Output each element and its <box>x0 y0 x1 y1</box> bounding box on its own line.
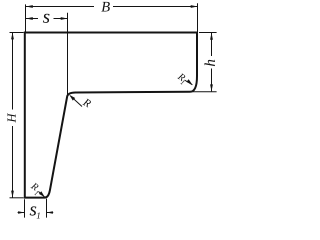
arrow s1 left (outside, points right) <box>18 211 24 214</box>
arrow h top <box>210 33 213 40</box>
label h <box>204 60 214 66</box>
leader R (inner fillet) <box>71 96 83 107</box>
arrow B right <box>191 5 198 8</box>
leader R1 (bottom fillet) <box>39 192 45 198</box>
extension line B right <box>197 3 199 32</box>
extension line H bottom (left of bottom edge) <box>10 197 24 199</box>
leader R1 (top right fillet) <box>185 80 193 85</box>
arrow s1 right (outside, points left) <box>47 211 53 214</box>
arrow h bottom <box>210 84 213 91</box>
label R1 (top right): R <box>177 73 186 82</box>
dimension line H <box>12 32 14 109</box>
label B <box>101 2 109 12</box>
label R1 (bottom): R <box>30 182 39 191</box>
extension line s1 left <box>24 199 26 217</box>
extension line H top (left of top edge) <box>10 32 24 34</box>
label s1: subscript 1 <box>37 213 40 219</box>
dimension line s1 left tail <box>18 212 25 214</box>
label R <box>82 98 91 108</box>
extension line B left <box>25 4 27 31</box>
label s <box>43 14 50 23</box>
arrow H bottom <box>11 191 14 198</box>
extension line h top <box>199 32 217 34</box>
dimension line h <box>211 33 213 56</box>
label R1 (bottom): subscript 1 <box>34 190 39 195</box>
arrow s right <box>61 17 68 20</box>
dimension line s1 right tail <box>47 212 54 214</box>
dimension line B <box>26 6 94 8</box>
profile outline (channel flange + tapered leg) <box>25 33 197 198</box>
label s1: s <box>30 206 37 215</box>
arrow H top <box>11 32 14 39</box>
label R1 (top right): subscript 1 <box>180 80 185 85</box>
extension line h bottom <box>191 91 217 93</box>
extension line s1 right <box>46 199 48 218</box>
arrow B left <box>26 5 33 8</box>
arrow s left <box>26 17 33 20</box>
dimension line s <box>26 18 38 20</box>
extension line s right (through flange) <box>67 13 69 96</box>
label H <box>8 113 16 123</box>
